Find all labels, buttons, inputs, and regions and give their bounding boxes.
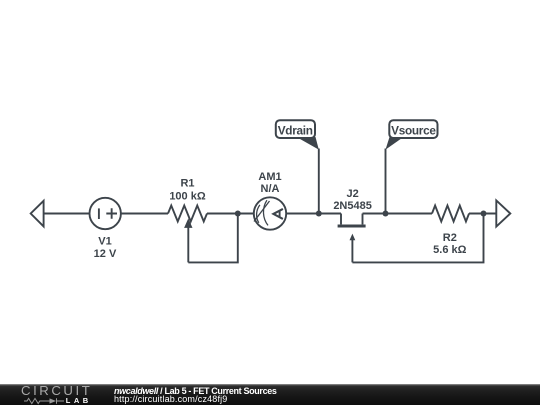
V1 plus sign <box>106 208 117 219</box>
CircuitLab logo wordmark <box>21 384 92 397</box>
AM1 letter A (rotated, drawn as path) <box>273 209 283 219</box>
node junction Vdrain <box>316 211 322 217</box>
AM1 needle <box>254 201 270 222</box>
svg-text:Vdrain: Vdrain <box>278 123 313 137</box>
J2 source lead <box>362 214 364 225</box>
wire R1 wiper loop <box>188 214 238 263</box>
svg-text:V1: V1 <box>98 236 111 248</box>
svg-text:100 kΩ: 100 kΩ <box>169 191 206 203</box>
AM1 meter scale arcs <box>257 205 260 223</box>
ammeter AM1 body <box>254 197 286 229</box>
R1 wiper stem wire <box>187 227 189 262</box>
footer url text <box>114 394 227 404</box>
transistor J2 drain lead <box>340 214 342 225</box>
wire Vdrain flag to node <box>318 149 320 214</box>
wire gate feedback loop <box>352 214 483 263</box>
footer title text <box>114 386 277 396</box>
port P_right (right terminal triangle) <box>496 200 510 226</box>
flag Vdrain pointer <box>297 137 319 150</box>
port P_left (left terminal triangle) <box>31 201 44 227</box>
wire AM1 to J2 drain <box>286 213 341 215</box>
voltage source V1 body <box>90 198 121 229</box>
svg-text:J2: J2 <box>346 188 358 200</box>
V1 minus bar <box>98 208 100 219</box>
flag Vsource box <box>389 120 437 138</box>
svg-text:2N5485: 2N5485 <box>333 200 372 212</box>
J2 gate arrow <box>350 234 356 241</box>
svg-text:N/A: N/A <box>261 183 280 195</box>
wire R2 to right port <box>469 213 496 215</box>
flag Vdrain box <box>276 120 315 138</box>
wire J2 source to R2 <box>363 213 433 215</box>
node junction Vsource <box>383 211 389 217</box>
R1 wiper arrow <box>184 218 192 228</box>
node junction R2/feedback <box>481 211 487 217</box>
wire R1 to AM1 <box>207 213 254 215</box>
svg-text:5.6 kΩ: 5.6 kΩ <box>433 244 466 256</box>
svg-text:Vsource: Vsource <box>391 123 436 137</box>
wire Vsource flag to node <box>385 149 387 214</box>
resistor R2 zigzag <box>432 206 469 222</box>
svg-text:12 V: 12 V <box>94 248 117 260</box>
svg-text:R1: R1 <box>180 178 194 190</box>
wire V1 to R1 <box>121 213 168 215</box>
flag Vsource pointer <box>386 137 404 150</box>
logo schematic squiggle <box>24 397 65 405</box>
resistor R1 (potentiometer) zigzag <box>168 206 207 222</box>
svg-text:R2: R2 <box>443 232 457 244</box>
footer bar <box>0 384 540 405</box>
svg-text:AM1: AM1 <box>258 171 281 183</box>
wire left port to V1 <box>44 213 90 215</box>
J2 channel bar <box>338 224 366 227</box>
node junction R1 wiper/main <box>235 211 241 217</box>
J2 gate stem wire <box>351 240 353 263</box>
